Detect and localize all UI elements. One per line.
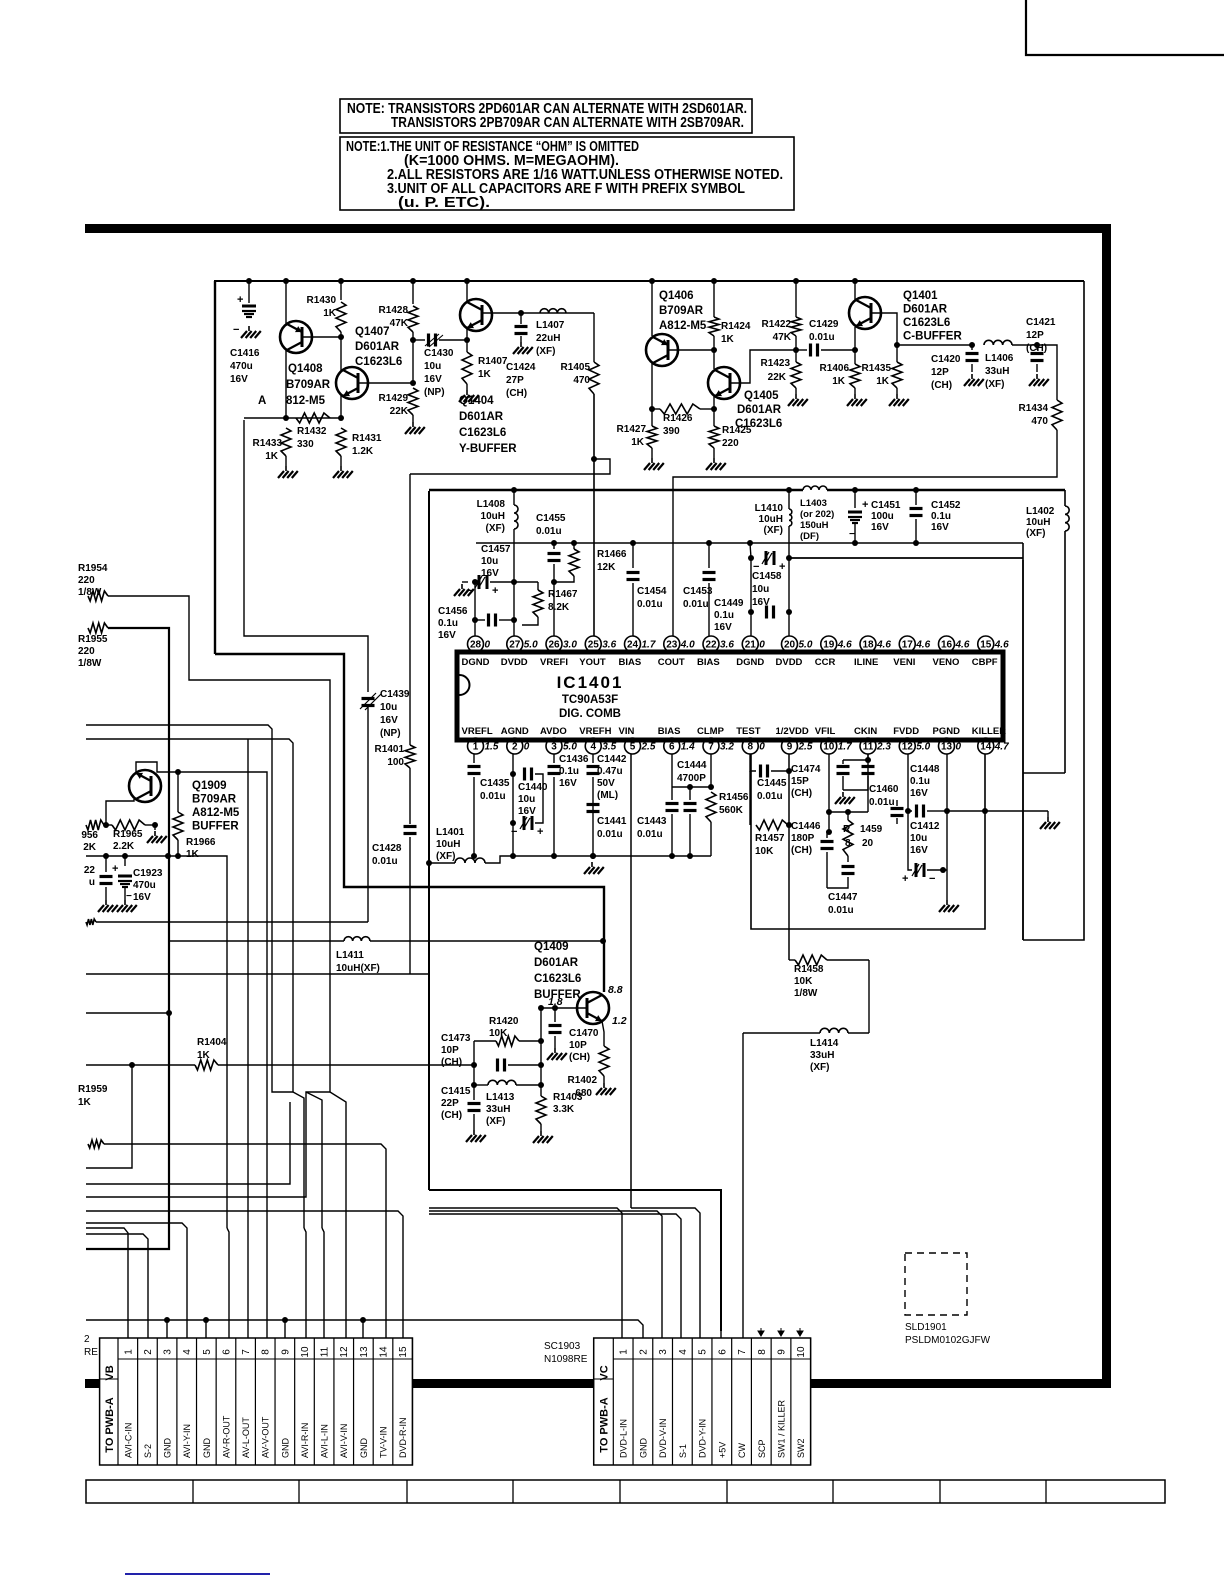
svg-text:R1434: R1434 — [1019, 403, 1049, 414]
inductor L1408 — [514, 505, 518, 529]
svg-text:GND: GND — [359, 1438, 369, 1459]
svg-text:L1407: L1407 — [536, 320, 565, 331]
svg-text:−: − — [126, 891, 132, 902]
svg-text:4.6: 4.6 — [915, 640, 930, 651]
label L1414 — [810, 1038, 839, 1073]
wire VB pin8 drop — [266, 1320, 268, 1338]
capacitor C1443 — [666, 754, 679, 859]
svg-text:0.01u: 0.01u — [480, 791, 506, 802]
pin 18 ILINE — [860, 636, 891, 652]
svg-text:10uH(XF): 10uH(XF) — [336, 963, 380, 974]
svg-text:5: 5 — [698, 1349, 709, 1355]
svg-text:680: 680 — [575, 1088, 592, 1099]
svg-text:1/8W: 1/8W — [78, 658, 102, 669]
pin 15 CBPF — [978, 636, 1009, 652]
svg-text:10: 10 — [823, 742, 835, 753]
svg-text:AVI-Y-IN: AVI-Y-IN — [182, 1424, 192, 1458]
svg-text:(XF): (XF) — [764, 525, 783, 536]
pin 17 VENI — [899, 636, 930, 652]
svg-text:470u: 470u — [133, 880, 156, 891]
svg-text:1K: 1K — [323, 308, 337, 319]
svg-text:AVI-C-IN: AVI-C-IN — [123, 1423, 133, 1458]
svg-text:C1458: C1458 — [752, 571, 782, 582]
svg-text:+: + — [112, 863, 118, 875]
wire C1421 to R1434 — [1037, 345, 1057, 400]
svg-text:1K: 1K — [197, 1050, 211, 1061]
resistor R1402 — [599, 1046, 609, 1083]
IC U1401 body — [457, 652, 1003, 740]
svg-text:6: 6 — [221, 1349, 232, 1355]
svg-text:C-BUFFER: C-BUFFER — [903, 331, 962, 343]
resistor R1431 — [336, 428, 346, 466]
label L1402 — [1026, 506, 1055, 539]
transistor Q1909 — [129, 770, 161, 802]
svg-text:16V: 16V — [230, 374, 248, 385]
svg-text:C1443: C1443 — [637, 816, 667, 827]
svg-text:+: + — [862, 499, 868, 511]
wire y856 left rail — [86, 856, 227, 1228]
resistor R1959 — [88, 1140, 386, 1228]
pin 12 FVDD — [899, 738, 930, 754]
wire R1428 to base — [412, 340, 414, 383]
svg-text:R1435: R1435 — [862, 363, 892, 374]
svg-text:25: 25 — [588, 640, 600, 651]
resistor R1401 — [405, 745, 415, 824]
pin label DGND — [736, 657, 764, 668]
capacitor C1457 — [462, 575, 517, 597]
svg-text:16V: 16V — [871, 522, 889, 533]
label C1445 — [757, 778, 787, 802]
capacitor C1424 — [515, 310, 528, 342]
svg-text:(XF): (XF) — [486, 523, 505, 534]
label R1959 — [78, 1084, 108, 1108]
note box 2 — [340, 137, 794, 210]
svg-text:C1424: C1424 — [506, 362, 536, 373]
svg-text:7: 7 — [241, 1349, 252, 1355]
svg-text:16V: 16V — [133, 892, 151, 903]
resistor R1420 — [474, 1036, 541, 1065]
wire VB pin10 drop — [305, 1320, 307, 1338]
transistor Q1408 — [280, 321, 312, 353]
svg-text:R1401: R1401 — [375, 744, 405, 755]
svg-text:5: 5 — [202, 1349, 213, 1355]
svg-text:1K: 1K — [478, 369, 492, 380]
wire VB pin7 drop — [247, 1320, 249, 1338]
pin 2 AGND — [507, 738, 530, 754]
pin 22 BIAS — [703, 636, 734, 652]
svg-text:C1445: C1445 — [757, 778, 787, 789]
pin label CBPF — [972, 657, 998, 668]
svg-text:CLMP: CLMP — [697, 726, 725, 737]
capacitor C1446 — [821, 832, 834, 888]
svg-text:0.01u: 0.01u — [869, 797, 895, 808]
svg-text:15P: 15P — [791, 776, 809, 787]
pin label VENO — [933, 657, 960, 668]
svg-text:9: 9 — [787, 742, 793, 753]
svg-text:1.5: 1.5 — [485, 742, 499, 753]
wire Q1409 emitter — [602, 1021, 604, 1046]
pin label CLMP — [697, 726, 725, 737]
pin label VREFL — [462, 726, 493, 737]
svg-text:14: 14 — [980, 742, 992, 753]
svg-text:6: 6 — [717, 1349, 728, 1355]
resistor R1467 — [514, 582, 543, 625]
svg-text:FVDD: FVDD — [893, 726, 919, 737]
pin label CKIN — [854, 726, 877, 737]
capacitor C1449 — [767, 606, 793, 619]
svg-text:C1444: C1444 — [677, 760, 707, 771]
svg-text:5.0: 5.0 — [563, 742, 577, 753]
pin label CCR — [815, 657, 836, 668]
label C1429 — [809, 319, 839, 343]
ground R1406 — [847, 394, 867, 406]
svg-text:47K: 47K — [390, 318, 409, 329]
svg-text:+: + — [237, 294, 243, 306]
resistor R1954 — [86, 591, 330, 1197]
svg-text:R1427: R1427 — [617, 424, 647, 435]
pin label VIN — [619, 726, 635, 737]
label L1403 — [800, 498, 834, 542]
label R1401 — [375, 744, 405, 768]
bus jog to pin10 — [293, 1092, 304, 1228]
svg-text:4: 4 — [678, 1349, 689, 1355]
svg-text:22: 22 — [705, 640, 717, 651]
wire box-A left edge — [214, 281, 216, 654]
svg-text:AV-V-OUT: AV-V-OUT — [261, 1416, 271, 1458]
inductor L1401 — [455, 858, 485, 863]
inductor L1413 — [471, 1065, 541, 1088]
svg-text:13: 13 — [359, 1346, 370, 1358]
transistor Q1406 — [646, 334, 678, 366]
svg-text:2.3: 2.3 — [876, 742, 891, 753]
svg-text:C1457: C1457 — [481, 544, 511, 555]
label R1954 — [78, 563, 108, 598]
wire Q1409 base node — [538, 1005, 587, 1044]
wire R1432 row — [244, 349, 344, 421]
svg-text:2: 2 — [143, 1349, 154, 1355]
wire Q1405 emitter — [711, 396, 717, 412]
svg-text:GND: GND — [202, 1438, 212, 1459]
label C1470 — [569, 1028, 599, 1063]
resistor R1424 — [709, 281, 719, 350]
resistor R1458 — [789, 955, 869, 965]
pin label AVDO — [540, 726, 567, 737]
inductor L1403 inline — [803, 486, 827, 490]
pin 16 VENO — [939, 636, 970, 652]
ground R1965 — [147, 831, 167, 843]
capacitor C1430 — [413, 334, 470, 348]
svg-text:R1406: R1406 — [820, 363, 850, 374]
resistor R1404 — [86, 1060, 474, 1070]
bus wires to VC — [429, 1208, 700, 1338]
svg-text:L1410: L1410 — [755, 503, 784, 514]
svg-text:+: + — [902, 873, 908, 885]
capacitor C1421 — [1012, 342, 1044, 372]
svg-text:4.6: 4.6 — [876, 640, 891, 651]
svg-text:1.4: 1.4 — [681, 742, 695, 753]
transistor Q1409 — [577, 992, 609, 1024]
ground R1429 — [405, 422, 425, 434]
svg-text:3.5: 3.5 — [602, 742, 616, 753]
svg-text:2: 2 — [84, 1334, 90, 1345]
bottom table strip — [86, 1480, 1165, 1503]
label Q1909 — [192, 780, 240, 833]
pin label PGND — [933, 726, 961, 737]
svg-text:17: 17 — [902, 640, 914, 651]
ground C1424 — [513, 342, 533, 354]
svg-text:0: 0 — [956, 742, 962, 753]
svg-text:10P: 10P — [569, 1040, 587, 1051]
svg-text:C1436: C1436 — [559, 754, 589, 765]
label C1473 — [441, 1033, 471, 1068]
svg-text:DVDD: DVDD — [501, 657, 528, 668]
svg-text:0.01u: 0.01u — [757, 791, 783, 802]
bus wire to pin1 — [86, 1228, 128, 1338]
svg-text:R1432: R1432 — [297, 426, 327, 437]
svg-text:8: 8 — [747, 742, 753, 753]
label C1430 — [424, 348, 454, 398]
label C1922 — [84, 865, 96, 888]
svg-text:10u: 10u — [518, 794, 535, 805]
svg-text:16: 16 — [941, 640, 953, 651]
svg-text:u: u — [89, 877, 95, 888]
capacitor C1470 — [549, 1005, 562, 1048]
svg-text:CBPF: CBPF — [972, 657, 998, 668]
ground C1470 — [547, 1048, 567, 1060]
pin label FVDD — [893, 726, 919, 737]
svg-text:15: 15 — [980, 640, 992, 651]
pin label DVDD — [776, 657, 803, 668]
svg-text:SLD1901: SLD1901 — [905, 1322, 947, 1333]
pin label BIAS — [619, 657, 642, 668]
svg-text:C1430: C1430 — [424, 348, 454, 359]
label R1431 — [352, 433, 382, 457]
svg-text:4: 4 — [590, 742, 596, 753]
svg-text:0.01u: 0.01u — [809, 332, 835, 343]
svg-text:R1955: R1955 — [78, 634, 108, 645]
ground C1474 — [835, 792, 855, 804]
wire killer row — [947, 808, 1048, 817]
label C1460 — [869, 784, 899, 808]
resistor R1429 — [408, 388, 418, 422]
svg-text:0.1u: 0.1u — [931, 511, 951, 522]
svg-text:R1458: R1458 — [794, 964, 824, 975]
svg-text:10K: 10K — [755, 846, 774, 857]
wire Q1909 collector — [136, 762, 267, 1228]
svg-text:220: 220 — [78, 575, 95, 586]
svg-text:TRANSISTORS 2PB709AR CAN ALTER: TRANSISTORS 2PB709AR CAN ALTERNATE WITH … — [391, 115, 744, 131]
resistor R1434 — [1052, 400, 1062, 430]
pin 3 AVDO — [546, 738, 577, 754]
pin 26 VREFI — [546, 636, 577, 652]
ground R1402 — [596, 1083, 616, 1095]
svg-text:CCR: CCR — [815, 657, 836, 668]
svg-text:TO PWB-A: TO PWB-A — [599, 1397, 611, 1452]
svg-text:956: 956 — [81, 830, 98, 841]
label C1449 — [714, 598, 744, 633]
pin 20 DVDD — [782, 636, 813, 652]
svg-text:3.2: 3.2 — [720, 742, 734, 753]
svg-text:1K: 1K — [876, 376, 890, 387]
capacitor C1473 — [471, 1041, 544, 1088]
label C1457 — [481, 544, 511, 579]
svg-text:AV-R-OUT: AV-R-OUT — [221, 1415, 231, 1458]
wire box-B top — [429, 490, 1065, 773]
capacitor C1436 — [548, 754, 561, 859]
svg-text:L1411: L1411 — [336, 950, 364, 961]
ground C1415 — [466, 1130, 486, 1142]
label L1408 — [477, 499, 506, 534]
ground R1425 — [706, 458, 726, 470]
capacitor C1435 — [468, 754, 481, 859]
svg-text:150uH: 150uH — [800, 520, 829, 531]
svg-text:1K: 1K — [631, 437, 645, 448]
pin label COUT — [658, 657, 685, 668]
svg-text:VB: VB — [104, 1365, 116, 1380]
svg-text:1.7: 1.7 — [838, 742, 852, 753]
svg-text:22K: 22K — [390, 406, 409, 417]
svg-text:2K: 2K — [83, 842, 97, 853]
svg-text:B709AR: B709AR — [192, 794, 237, 806]
svg-text:C1415: C1415 — [441, 1086, 471, 1097]
svg-text:R1424: R1424 — [721, 321, 751, 332]
svg-text:0: 0 — [759, 742, 765, 753]
resistor R1459 — [827, 809, 855, 888]
capacitor C1442 — [587, 754, 600, 859]
capacitor C1428 — [404, 827, 417, 975]
svg-text:DVD-V-IN: DVD-V-IN — [658, 1418, 668, 1458]
svg-text:A812-M5: A812-M5 — [659, 320, 707, 332]
pin label VENI — [893, 657, 915, 668]
ground killer — [1040, 817, 1060, 829]
svg-text:(CH): (CH) — [791, 845, 812, 856]
pin 1 VREFL — [468, 738, 499, 754]
wire y974 rail — [86, 973, 429, 975]
svg-text:16V: 16V — [714, 622, 732, 633]
svg-text:R1966: R1966 — [186, 837, 216, 848]
svg-text:22: 22 — [84, 865, 96, 876]
svg-text:DVD-Y-IN: DVD-Y-IN — [698, 1419, 708, 1458]
svg-text:N1098RE: N1098RE — [544, 1354, 588, 1365]
svg-text:C1448: C1448 — [910, 764, 940, 775]
svg-text:180P: 180P — [791, 833, 815, 844]
svg-text:9: 9 — [777, 1349, 788, 1355]
svg-text:L1401: L1401 — [436, 827, 465, 838]
label Q1409 — [534, 941, 581, 1001]
svg-text:R1433: R1433 — [253, 438, 283, 449]
svg-text:10u: 10u — [752, 584, 769, 595]
svg-text:0.01u: 0.01u — [637, 829, 663, 840]
svg-text:16V: 16V — [481, 568, 499, 579]
wire dvdd column — [511, 487, 517, 636]
wire Q1405 base — [730, 347, 799, 383]
label R1466 — [597, 549, 627, 573]
blue underline — [125, 1573, 270, 1575]
label R1423 — [761, 358, 791, 383]
label C1442 — [597, 754, 627, 801]
ground R1407 — [459, 390, 479, 402]
svg-text:470u: 470u — [230, 361, 253, 372]
ground R1431 — [333, 466, 353, 478]
voltage 8.8 — [608, 984, 623, 996]
label L1401 — [436, 827, 465, 862]
pin label TEST — [736, 726, 760, 737]
svg-text:812-M5: 812-M5 — [286, 395, 326, 407]
label R1433 — [253, 438, 283, 462]
svg-text:C1447: C1447 — [828, 892, 858, 903]
svg-text:(CH): (CH) — [791, 788, 812, 799]
svg-text:D601AR: D601AR — [903, 304, 948, 316]
ground C1923 — [117, 900, 137, 912]
svg-text:2: 2 — [512, 742, 518, 753]
svg-text:8: 8 — [845, 838, 851, 849]
svg-text:D601AR: D601AR — [355, 341, 400, 353]
label R1956 — [81, 830, 98, 853]
svg-text:YOUT: YOUT — [579, 657, 606, 668]
svg-text:0.47u: 0.47u — [597, 766, 623, 777]
svg-text:C1429: C1429 — [809, 319, 839, 330]
svg-text:CW: CW — [737, 1443, 747, 1458]
svg-text:C1623L6: C1623L6 — [459, 427, 506, 439]
svg-text:10K: 10K — [489, 1028, 508, 1039]
label Q1406 — [659, 290, 707, 332]
transistor Q1405 — [708, 367, 740, 399]
svg-text:R1405: R1405 — [561, 362, 591, 373]
svg-text:33uH: 33uH — [486, 1104, 510, 1115]
svg-text:AVI-V-IN: AVI-V-IN — [339, 1424, 349, 1458]
inductor L1402 — [1065, 506, 1069, 531]
svg-text:4.6: 4.6 — [837, 640, 852, 651]
resistor R1422 — [791, 281, 801, 350]
svg-text:1K: 1K — [832, 376, 846, 387]
wire VB pin3 — [166, 1320, 168, 1338]
note box 2 text — [346, 139, 783, 211]
capacitor C1448 — [905, 754, 943, 818]
wire Q1408 base — [302, 334, 344, 340]
svg-text:C1623L6: C1623L6 — [534, 973, 581, 985]
svg-text:R1954: R1954 — [78, 563, 108, 574]
wire VB pin12 drop — [345, 1320, 347, 1338]
label R1422 — [762, 319, 792, 343]
svg-text:1/8W: 1/8W — [78, 587, 102, 598]
svg-text:23: 23 — [666, 640, 678, 651]
wire Q1407 in — [340, 337, 342, 371]
svg-text:PGND: PGND — [933, 726, 961, 737]
svg-text:12: 12 — [902, 742, 914, 753]
label R1428 — [379, 305, 409, 329]
svg-text:R1965: R1965 — [113, 829, 143, 840]
label R1435 — [862, 363, 892, 387]
wire x244 feed — [244, 420, 368, 692]
svg-text:47K: 47K — [773, 332, 792, 343]
svg-text:TEST: TEST — [736, 726, 760, 737]
svg-text:8.8: 8.8 — [608, 984, 623, 996]
svg-text:14: 14 — [379, 1346, 390, 1358]
svg-text:26: 26 — [548, 640, 560, 651]
svg-text:1/2VDD: 1/2VDD — [776, 726, 809, 737]
svg-text:10uH: 10uH — [759, 514, 783, 525]
svg-text:C1623L6: C1623L6 — [355, 356, 402, 368]
label C1441 — [597, 816, 627, 840]
wire Q1406 emitter down — [649, 363, 655, 412]
label Q1401 — [903, 290, 962, 343]
svg-text:(CH): (CH) — [506, 388, 527, 399]
svg-text:−: − — [233, 324, 239, 336]
svg-text:1K: 1K — [721, 334, 735, 345]
svg-text:33uH: 33uH — [985, 366, 1009, 377]
label R1429 — [379, 393, 409, 417]
svg-text:(NP): (NP) — [380, 728, 401, 739]
